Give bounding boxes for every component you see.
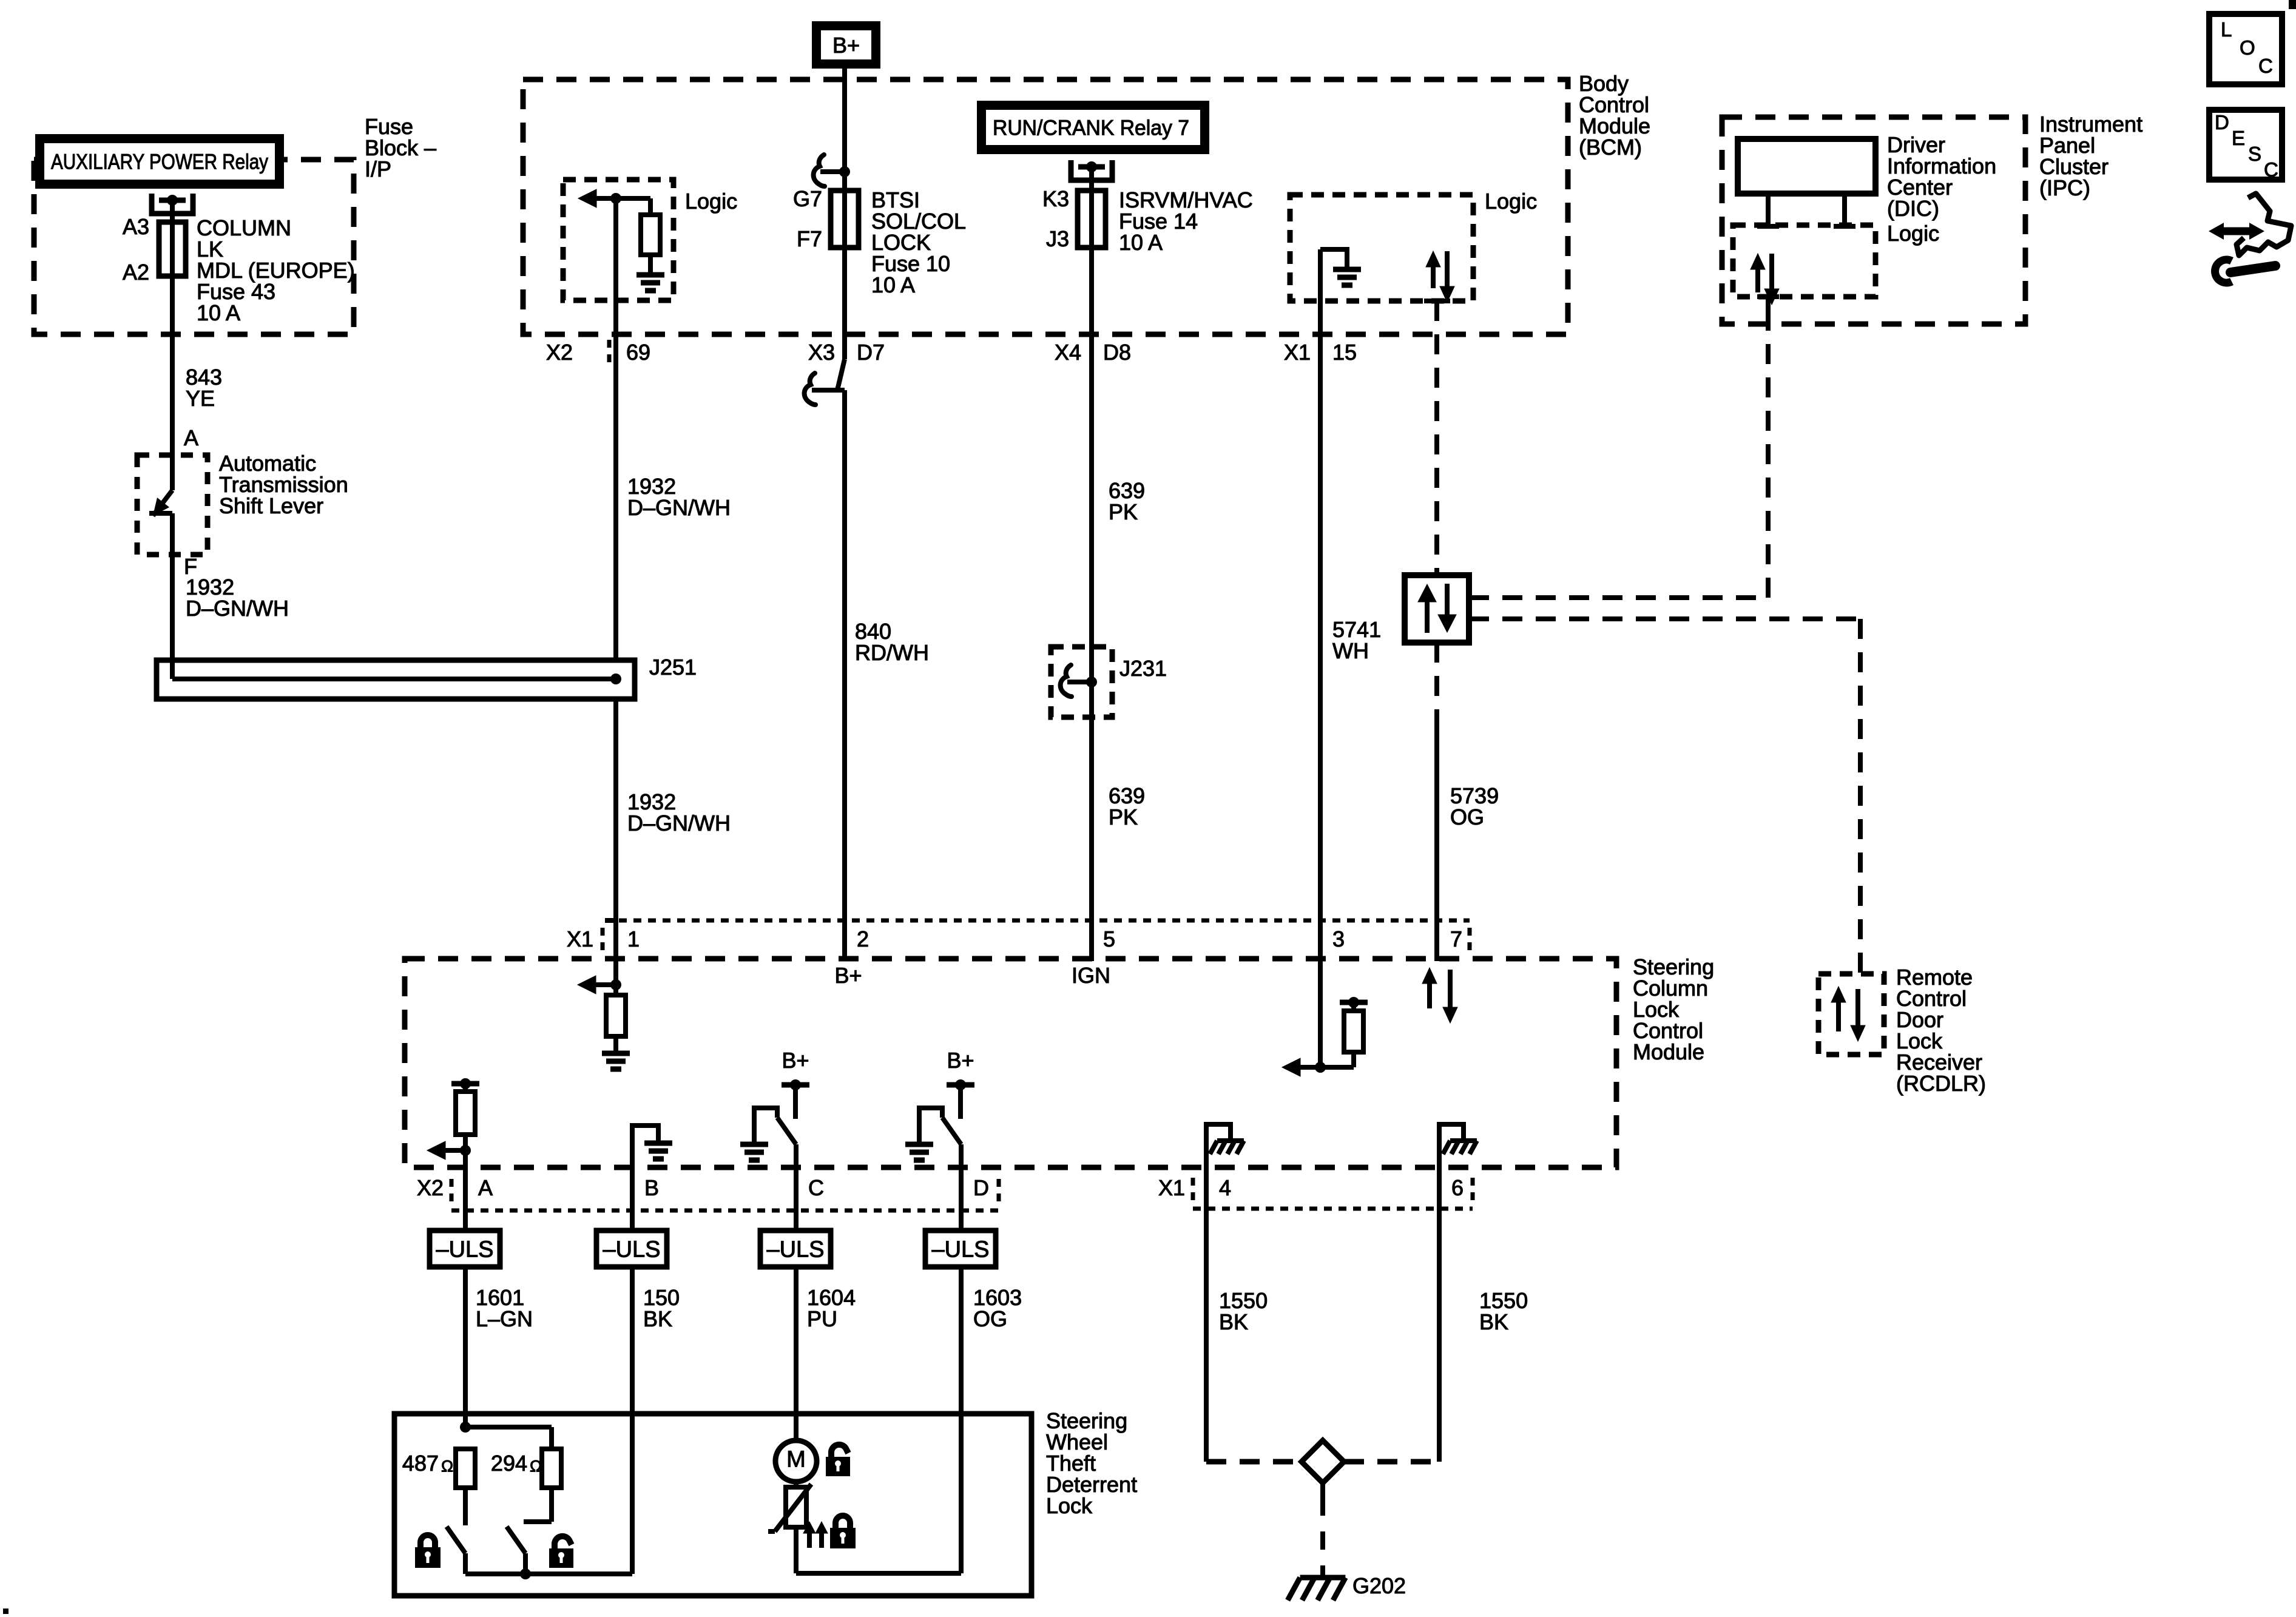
inline terminal hook at G7 bbox=[814, 155, 825, 186]
pin A arrow bbox=[427, 1141, 445, 1160]
pin B ground hook bbox=[632, 1126, 658, 1143]
Body Control Module dashed box bbox=[523, 79, 1568, 334]
svg-text:G202: G202 bbox=[1352, 1573, 1406, 1598]
splice pack J251 bus bar bbox=[172, 677, 616, 681]
svg-text:Logic: Logic bbox=[1485, 189, 1537, 214]
page artifact top-right corner bbox=[2289, 0, 2296, 9]
svg-text:6: 6 bbox=[1451, 1175, 1464, 1200]
svg-text:C: C bbox=[2258, 55, 2273, 77]
svg-text:Module: Module bbox=[1633, 1039, 1704, 1064]
B+ power feed box bbox=[812, 21, 880, 69]
IPC logic serial arrows bbox=[1755, 268, 1760, 292]
pin1 arrow and dot bbox=[578, 976, 596, 994]
IPC logic dashed box bbox=[1733, 225, 1876, 297]
ground G202 bbox=[1300, 1575, 1346, 1581]
splice J231 dashed box bbox=[1051, 647, 1112, 717]
relay box RUN/CRANK Relay 7 bbox=[977, 101, 1209, 154]
svg-text:OG: OG bbox=[1450, 805, 1484, 829]
svg-text:OG: OG bbox=[973, 1306, 1007, 1331]
svg-text:BK: BK bbox=[643, 1306, 672, 1331]
padlock closed left bbox=[420, 1535, 435, 1547]
switch common bus to pin B bbox=[465, 1571, 632, 1576]
svg-text:PK: PK bbox=[1109, 805, 1138, 829]
fuse F10 BTSI SOL/COL LOCK bbox=[831, 191, 859, 248]
Fuse Block - I/P dashed box bbox=[34, 160, 354, 334]
serial data gateway box bbox=[1405, 575, 1469, 643]
svg-text:L: L bbox=[2221, 18, 2232, 41]
connector X1 face line bottom bbox=[1193, 1207, 1473, 1211]
connector-view icon arrow bbox=[2219, 228, 2254, 235]
padlock open at motor bbox=[831, 1445, 848, 1457]
logic1 pull-down resistor bbox=[648, 198, 653, 215]
svg-text:D–GN/WH: D–GN/WH bbox=[627, 811, 731, 836]
ULS box pin A bbox=[430, 1230, 500, 1267]
svg-text:IGN: IGN bbox=[1072, 963, 1110, 988]
ULS box pin D bbox=[925, 1230, 996, 1267]
padlock closed at motor bbox=[836, 1516, 850, 1528]
page artifact bottom-left dot bbox=[3, 1609, 8, 1614]
ULS box pin C bbox=[760, 1230, 831, 1267]
svg-text:10 A: 10 A bbox=[1119, 230, 1163, 255]
pin 4 wire 1550 BK bbox=[1204, 1124, 1209, 1462]
Automatic Transmission Shift Lever dashed box bbox=[137, 455, 208, 555]
svg-text:294: 294 bbox=[491, 1451, 527, 1476]
pin D wire bbox=[959, 1144, 964, 1230]
pin3 resistor branch bbox=[1351, 1052, 1356, 1067]
pin 6 wire 1550 BK bbox=[1437, 1124, 1442, 1462]
svg-text:B+: B+ bbox=[834, 963, 862, 988]
wire 5739 OG below gateway bbox=[1434, 643, 1439, 722]
relay output terminal bracket ISRVM bbox=[1071, 160, 1112, 180]
Remote Control Door Lock Receiver dashed box bbox=[1818, 974, 1884, 1055]
svg-text:G7: G7 bbox=[793, 186, 822, 211]
wire 5741 WH from BCM X1-15 bbox=[1318, 249, 1323, 1067]
relay output terminal bracket bbox=[152, 194, 193, 214]
svg-text:2: 2 bbox=[857, 927, 869, 951]
switch C ground bbox=[740, 1142, 768, 1147]
svg-text:Lock: Lock bbox=[1046, 1493, 1093, 1518]
Driver Information Center display box bbox=[1738, 139, 1876, 194]
Steering Wheel Theft Deterrent Lock box bbox=[394, 1414, 1032, 1596]
svg-text:7: 7 bbox=[1450, 927, 1462, 951]
ULS box pin B bbox=[596, 1230, 667, 1267]
svg-text:D–GN/WH: D–GN/WH bbox=[186, 596, 289, 621]
pin A resistor bbox=[463, 1084, 468, 1092]
wire 1932 into pin 1 bbox=[613, 699, 618, 995]
pin1 resistor bbox=[606, 995, 626, 1036]
svg-text:RD/WH: RD/WH bbox=[855, 640, 929, 665]
connector-view icon outline bbox=[2237, 194, 2291, 255]
motor circuit to pin D bbox=[794, 1527, 799, 1573]
right switch contact bbox=[549, 1488, 554, 1522]
svg-text:10 A: 10 A bbox=[871, 272, 915, 297]
svg-text:I/P: I/P bbox=[365, 157, 391, 181]
gateway arrows bbox=[1425, 602, 1430, 633]
pin 4 ground hook bbox=[1206, 1124, 1231, 1143]
svg-text:C: C bbox=[808, 1175, 824, 1200]
fuse F43 COLUMN LK MDL bbox=[159, 222, 186, 276]
pin A wire bbox=[463, 1135, 468, 1230]
svg-text:10 A: 10 A bbox=[197, 300, 240, 325]
wire 1932 D-GN/WH from BCM X2-69 bbox=[613, 198, 618, 660]
svg-text:A: A bbox=[184, 425, 198, 450]
svg-text:69: 69 bbox=[626, 340, 650, 365]
svg-text:X1: X1 bbox=[567, 927, 593, 951]
serial data dashed to RCDLR bbox=[1469, 616, 1860, 621]
padlock open right bbox=[555, 1536, 572, 1548]
pin7 serial arrows bbox=[1427, 982, 1432, 1008]
resistor 294 ohm bbox=[542, 1449, 561, 1488]
svg-text:X3: X3 bbox=[808, 340, 835, 365]
svg-text:B+: B+ bbox=[782, 1048, 809, 1073]
svg-text:Shift Lever: Shift Lever bbox=[219, 493, 323, 518]
svg-text:S: S bbox=[2248, 143, 2261, 165]
svg-text:X2: X2 bbox=[546, 340, 573, 365]
shift lever switch blade bbox=[153, 490, 172, 516]
inline terminal hook J231 bbox=[1061, 665, 1072, 697]
svg-text:D7: D7 bbox=[857, 340, 885, 365]
svg-text:Logic: Logic bbox=[1887, 221, 1939, 246]
logic2 ground hook on X1-15 bbox=[1320, 249, 1347, 269]
svg-text:D: D bbox=[973, 1175, 989, 1200]
wire from relay to ISRVM fuse bbox=[1089, 167, 1094, 961]
unlock double arrows bbox=[807, 1533, 812, 1548]
svg-text:L–GN: L–GN bbox=[476, 1306, 533, 1331]
inline terminal hook below D7 bbox=[805, 373, 815, 405]
serial tick and wire bbox=[1757, 294, 1779, 299]
svg-text:WH: WH bbox=[1332, 638, 1369, 663]
BCM logic box 1 bbox=[563, 180, 674, 300]
svg-text:B+: B+ bbox=[947, 1048, 974, 1073]
svg-text:C: C bbox=[2264, 158, 2278, 181]
svg-text:J231: J231 bbox=[1119, 656, 1167, 681]
svg-text:PK: PK bbox=[1109, 499, 1138, 524]
BCM logic box 2 bbox=[1290, 195, 1473, 301]
lock motor M bbox=[775, 1440, 817, 1482]
wrench icon bbox=[2215, 260, 2232, 283]
serial data tick bbox=[1424, 299, 1450, 303]
svg-text:BK: BK bbox=[1479, 1309, 1508, 1334]
connector X2 face line bottom bbox=[451, 1209, 999, 1213]
svg-text:PU: PU bbox=[807, 1306, 837, 1331]
svg-text:(RCDLR): (RCDLR) bbox=[1896, 1071, 1986, 1096]
pin C wire bbox=[794, 1144, 799, 1230]
svg-text:3: 3 bbox=[1332, 927, 1345, 951]
svg-text:(IPC): (IPC) bbox=[2039, 175, 2090, 200]
svg-text:K3: K3 bbox=[1042, 186, 1069, 211]
svg-text:M: M bbox=[786, 1447, 806, 1472]
svg-text:15: 15 bbox=[1332, 340, 1357, 365]
ground bus dashed bbox=[1206, 1459, 1302, 1465]
wire to G202 bbox=[1320, 1483, 1325, 1497]
wire B+ to BTSI fuse bbox=[842, 69, 847, 359]
switch D ground bbox=[905, 1142, 933, 1147]
svg-text:F7: F7 bbox=[797, 226, 822, 251]
svg-text:B: B bbox=[644, 1175, 659, 1200]
svg-text:5: 5 bbox=[1103, 927, 1115, 951]
DESC reference box bbox=[2209, 110, 2282, 180]
svg-text:Logic: Logic bbox=[685, 189, 737, 214]
DIC legs bbox=[1766, 194, 1771, 225]
svg-text:E: E bbox=[2232, 127, 2245, 149]
svg-text:–ULS: –ULS bbox=[603, 1237, 660, 1262]
relay box AUXILIARY POWER Relay bbox=[35, 134, 284, 189]
wire jog through X3-D7 bbox=[837, 359, 845, 390]
logic1 output arrow bbox=[578, 189, 596, 208]
svg-text:J3: J3 bbox=[1046, 226, 1069, 251]
svg-text:A2: A2 bbox=[123, 260, 149, 285]
svg-text:X1: X1 bbox=[1158, 1175, 1185, 1200]
lock switch left bbox=[463, 1488, 468, 1525]
PTC thermistor bbox=[794, 1482, 799, 1487]
svg-text:O: O bbox=[2240, 36, 2255, 59]
resistor 487 ohm bbox=[456, 1449, 475, 1488]
right switch blade bbox=[507, 1527, 525, 1553]
svg-text:D–GN/WH: D–GN/WH bbox=[627, 495, 731, 520]
svg-text:J251: J251 bbox=[649, 655, 697, 680]
wire 843 YE from relay through Fuse 43 bbox=[170, 200, 175, 490]
RCDLR serial arrows bbox=[1836, 1001, 1841, 1031]
svg-text:(BCM): (BCM) bbox=[1579, 135, 1642, 160]
svg-text:D8: D8 bbox=[1103, 340, 1131, 365]
pin3 node arrow bbox=[1282, 1058, 1300, 1076]
svg-text:Ω: Ω bbox=[530, 1457, 542, 1475]
svg-text:BK: BK bbox=[1219, 1309, 1248, 1334]
svg-text:Ω: Ω bbox=[441, 1457, 453, 1475]
svg-text:RUN/CRANK Relay 7: RUN/CRANK Relay 7 bbox=[993, 116, 1189, 140]
svg-text:–ULS: –ULS bbox=[766, 1237, 824, 1262]
svg-text:–ULS: –ULS bbox=[436, 1237, 493, 1262]
LOC reference box bbox=[2209, 14, 2282, 84]
svg-text:AUXILIARY POWER Relay: AUXILIARY POWER Relay bbox=[51, 150, 268, 174]
switch D blade bbox=[942, 1118, 961, 1144]
svg-text:(DIC): (DIC) bbox=[1887, 196, 1939, 221]
svg-text:D: D bbox=[2215, 111, 2229, 133]
node at 487 ohm branch bbox=[460, 1422, 471, 1433]
pin1 ground bbox=[602, 1051, 630, 1056]
svg-text:–ULS: –ULS bbox=[931, 1237, 989, 1262]
wire 840 RD/WH down to pin 2 bbox=[842, 390, 847, 961]
logic1 ground bbox=[636, 272, 664, 278]
svg-text:X4: X4 bbox=[1055, 340, 1081, 365]
svg-text:B+: B+ bbox=[832, 33, 860, 58]
svg-text:YE: YE bbox=[186, 386, 215, 411]
fuse F14 ISRVM/HVAC bbox=[1078, 191, 1106, 248]
svg-text:X2: X2 bbox=[417, 1175, 444, 1200]
connector stub X2 bbox=[607, 340, 612, 365]
svg-text:487: 487 bbox=[402, 1451, 439, 1476]
pin A flag terminal bbox=[451, 1081, 479, 1087]
wires from connectors into lock assembly bbox=[463, 1267, 468, 1427]
svg-text:A3: A3 bbox=[123, 214, 149, 239]
connector X1 face line top bbox=[605, 918, 616, 923]
serial data dashed to IPC bbox=[1469, 595, 1768, 600]
Instrument Panel Cluster dashed box bbox=[1722, 117, 2025, 324]
svg-text:1: 1 bbox=[627, 927, 640, 951]
pin 6 ground hook bbox=[1439, 1124, 1464, 1143]
logic2 serial data arrows bbox=[1431, 265, 1436, 288]
serial data dashed wire down bbox=[1434, 301, 1439, 575]
Steering Column Lock Control Module dashed box bbox=[405, 959, 1616, 1167]
splice diamond bbox=[1302, 1440, 1344, 1483]
svg-text:A: A bbox=[478, 1175, 493, 1200]
svg-text:4: 4 bbox=[1219, 1175, 1231, 1200]
svg-text:X1: X1 bbox=[1284, 340, 1311, 365]
switch C blade bbox=[777, 1118, 796, 1144]
pin B wire bbox=[630, 1126, 635, 1230]
left switch blade bbox=[447, 1527, 465, 1553]
